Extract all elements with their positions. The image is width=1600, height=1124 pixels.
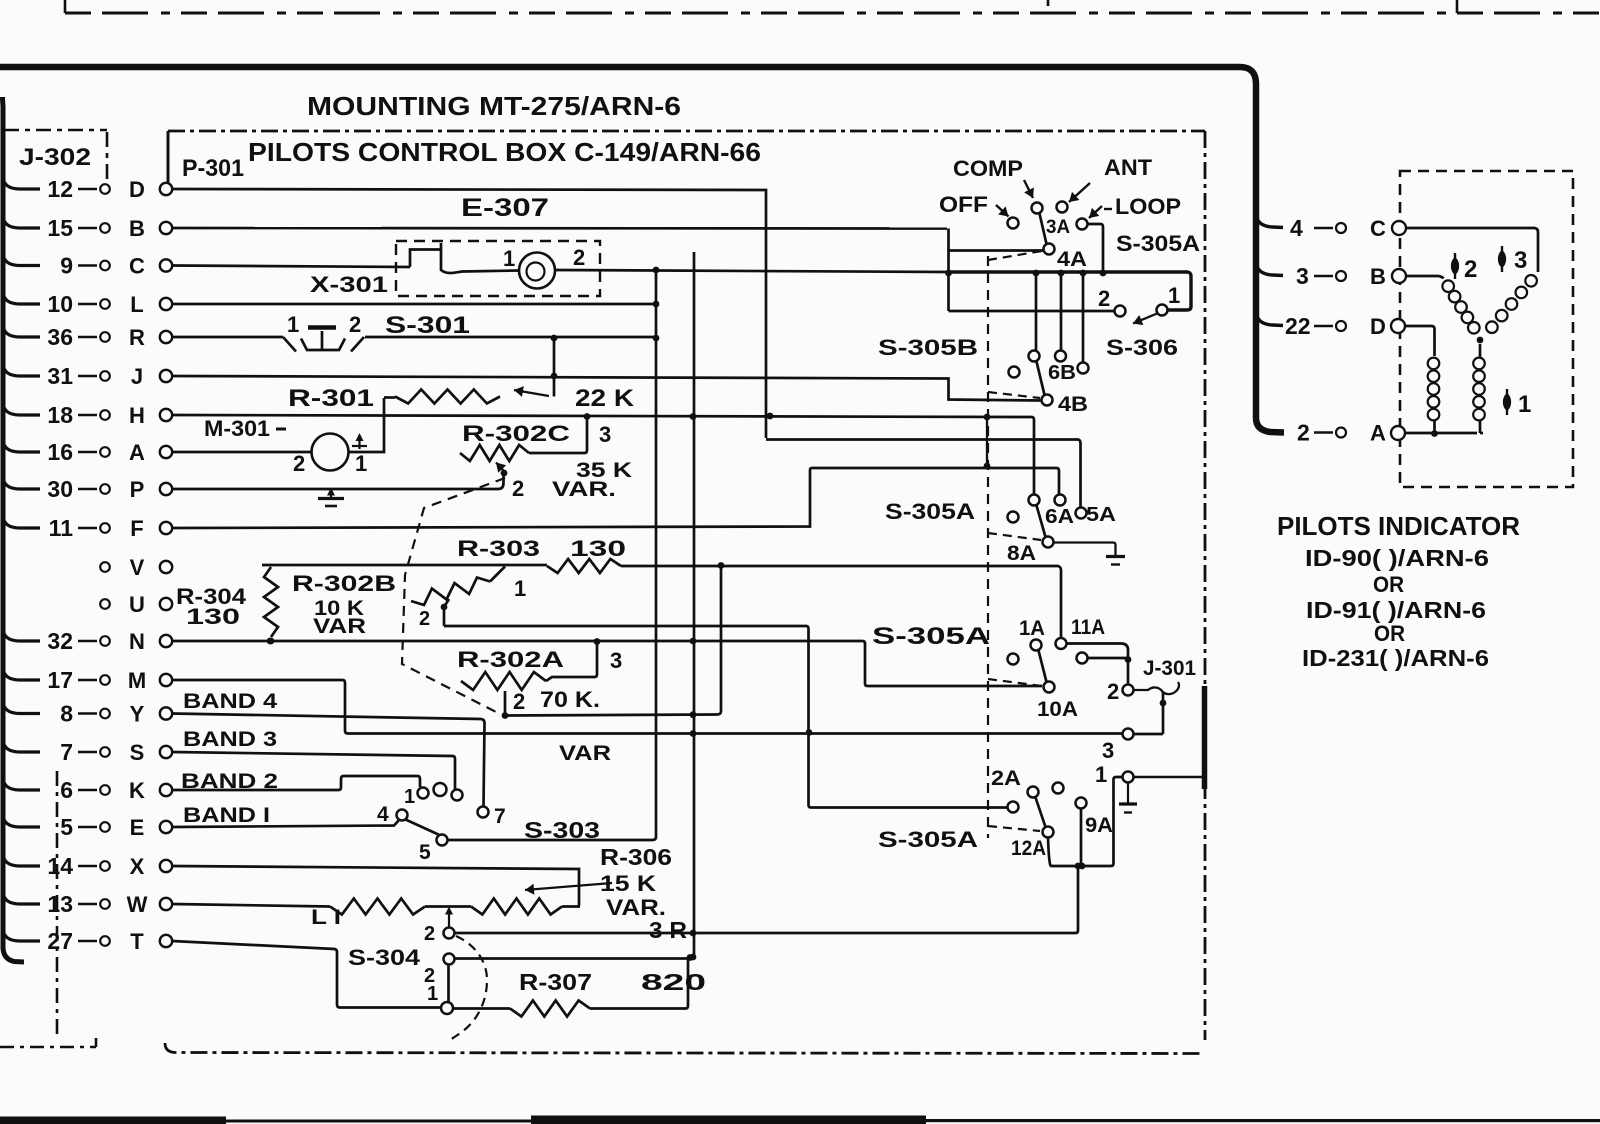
svg-text:OFF: OFF <box>939 192 988 217</box>
svg-text:ANT: ANT <box>1104 155 1153 180</box>
svg-text:1: 1 <box>503 246 515 271</box>
svg-text:S-305A: S-305A <box>878 827 978 852</box>
svg-text:X: X <box>130 854 145 879</box>
svg-text:3A: 3A <box>1046 217 1070 238</box>
svg-text:S-306: S-306 <box>1106 335 1178 360</box>
svg-text:OR: OR <box>1374 621 1405 646</box>
svg-text:22 K: 22 K <box>575 385 635 412</box>
svg-text:F: F <box>130 516 143 541</box>
svg-text:130: 130 <box>570 536 626 561</box>
svg-text:R: R <box>129 325 145 350</box>
svg-text:18: 18 <box>47 402 73 428</box>
svg-text:1: 1 <box>514 576 526 601</box>
svg-text:1: 1 <box>287 312 299 337</box>
svg-text:5: 5 <box>60 814 73 840</box>
svg-text:13: 13 <box>47 891 73 917</box>
svg-text:2: 2 <box>1464 256 1477 283</box>
svg-text:2: 2 <box>573 245 585 270</box>
svg-text:10A: 10A <box>1037 698 1078 721</box>
svg-text:COMP: COMP <box>953 156 1023 181</box>
svg-text:H: H <box>129 403 145 428</box>
svg-text:2: 2 <box>419 608 430 630</box>
svg-text:J: J <box>131 364 143 389</box>
svg-text:C: C <box>129 254 145 279</box>
svg-text:X-301: X-301 <box>310 272 388 297</box>
svg-text:ID-91( )/ARN-6: ID-91( )/ARN-6 <box>1306 597 1486 623</box>
svg-text:OR: OR <box>1373 572 1404 597</box>
svg-text:4: 4 <box>377 803 389 826</box>
svg-text:VAR: VAR <box>313 615 366 638</box>
svg-text:D: D <box>1370 314 1386 339</box>
svg-text:130: 130 <box>186 604 240 629</box>
svg-text:2A: 2A <box>991 767 1021 790</box>
svg-text:V: V <box>130 555 145 580</box>
svg-text:2: 2 <box>349 312 361 337</box>
svg-text:820: 820 <box>641 969 706 995</box>
svg-text:S-301: S-301 <box>385 312 470 339</box>
svg-text:3 R: 3 R <box>649 917 687 943</box>
svg-text:12A: 12A <box>1011 837 1046 860</box>
svg-text:P: P <box>130 477 145 502</box>
svg-text:9: 9 <box>60 253 73 279</box>
svg-text:W: W <box>127 892 148 917</box>
svg-text:J-301: J-301 <box>1143 657 1196 680</box>
svg-text:S-305B: S-305B <box>878 335 978 360</box>
svg-text:11A: 11A <box>1071 616 1105 639</box>
svg-text:1: 1 <box>1168 283 1180 308</box>
svg-text:L I: L I <box>311 906 341 929</box>
svg-text:S-303: S-303 <box>524 817 600 843</box>
svg-text:PILOTS CONTROL BOX C-149/ARN-6: PILOTS CONTROL BOX C-149/ARN-66 <box>248 137 761 167</box>
svg-text:30: 30 <box>47 476 73 502</box>
svg-text:10: 10 <box>47 291 73 317</box>
svg-text:E-307: E-307 <box>461 194 549 222</box>
svg-text:B: B <box>129 216 145 241</box>
svg-text:2: 2 <box>512 476 524 501</box>
svg-text:M-301: M-301 <box>204 416 270 441</box>
svg-text:R-303: R-303 <box>457 536 540 561</box>
svg-text:3: 3 <box>599 422 611 447</box>
svg-text:PILOTS INDICATOR: PILOTS INDICATOR <box>1277 511 1520 541</box>
svg-text:6: 6 <box>60 777 73 803</box>
svg-text:P-301: P-301 <box>182 155 244 182</box>
svg-text:2: 2 <box>1297 420 1310 446</box>
svg-text:1: 1 <box>427 983 438 1005</box>
svg-text:R-307: R-307 <box>519 969 592 995</box>
svg-text:ID-90( )/ARN-6: ID-90( )/ARN-6 <box>1305 545 1489 571</box>
svg-text:17: 17 <box>47 667 73 693</box>
svg-text:D: D <box>129 177 145 202</box>
svg-text:27: 27 <box>47 928 73 954</box>
svg-text:7: 7 <box>60 739 73 765</box>
svg-text:3: 3 <box>1102 738 1114 763</box>
svg-text:E: E <box>130 815 145 840</box>
svg-text:Y: Y <box>130 702 145 727</box>
svg-text:BAND I: BAND I <box>183 804 270 827</box>
svg-text:BAND 3: BAND 3 <box>183 728 277 751</box>
svg-text:M: M <box>128 668 146 693</box>
svg-text:14: 14 <box>47 853 73 879</box>
svg-text:R-302B: R-302B <box>292 571 396 596</box>
svg-text:S-304: S-304 <box>348 945 421 970</box>
svg-text:R-306: R-306 <box>600 844 672 870</box>
svg-text:11: 11 <box>49 515 74 541</box>
svg-text:3: 3 <box>1514 247 1527 274</box>
svg-text:1: 1 <box>355 451 367 476</box>
svg-text:5A: 5A <box>1086 504 1116 526</box>
svg-text:S-305A: S-305A <box>1116 231 1200 256</box>
svg-text:6A: 6A <box>1045 506 1074 528</box>
svg-text:2: 2 <box>424 923 435 945</box>
svg-text:12: 12 <box>47 176 73 202</box>
svg-text:L: L <box>130 292 143 317</box>
svg-text:31: 31 <box>47 363 73 389</box>
svg-text:U: U <box>129 592 145 617</box>
svg-text:3: 3 <box>1296 263 1309 289</box>
svg-text:4: 4 <box>1290 215 1303 241</box>
svg-text:N: N <box>129 629 145 654</box>
svg-text:1A: 1A <box>1019 617 1045 640</box>
svg-text:ID-231( )/ARN-6: ID-231( )/ARN-6 <box>1302 645 1489 671</box>
svg-text:S-305A: S-305A <box>872 623 990 650</box>
svg-text:15: 15 <box>47 215 73 241</box>
svg-text:9A: 9A <box>1085 814 1113 837</box>
svg-text:3: 3 <box>610 648 622 673</box>
svg-text:MOUNTING MT-275/ARN-6: MOUNTING MT-275/ARN-6 <box>307 91 681 121</box>
svg-text:2: 2 <box>1098 286 1110 311</box>
svg-text:S: S <box>130 740 145 765</box>
svg-text:VAR.: VAR. <box>552 478 616 501</box>
svg-text:1: 1 <box>404 786 415 808</box>
svg-text:BAND 4: BAND 4 <box>183 690 277 713</box>
svg-text:LOOP: LOOP <box>1115 194 1181 219</box>
svg-text:2: 2 <box>1107 679 1119 704</box>
svg-text:32: 32 <box>47 628 73 654</box>
svg-text:K: K <box>129 778 145 803</box>
svg-text:15 K: 15 K <box>600 871 656 896</box>
svg-text:R-301: R-301 <box>288 385 374 412</box>
svg-text:4B: 4B <box>1058 393 1088 416</box>
svg-text:16: 16 <box>47 439 73 465</box>
svg-text:1: 1 <box>1518 391 1531 418</box>
svg-text:8: 8 <box>60 701 73 727</box>
svg-text:2: 2 <box>513 689 525 714</box>
svg-text:8A: 8A <box>1007 542 1036 565</box>
svg-text:C: C <box>1370 216 1386 241</box>
svg-text:6B: 6B <box>1048 362 1076 384</box>
svg-text:1: 1 <box>1095 762 1107 787</box>
svg-text:A: A <box>1370 421 1386 446</box>
svg-text:22: 22 <box>1285 313 1311 339</box>
svg-text:R-302C: R-302C <box>462 421 570 446</box>
svg-text:36: 36 <box>47 324 73 350</box>
svg-text:2: 2 <box>293 451 305 476</box>
svg-text:4A: 4A <box>1057 248 1087 271</box>
svg-text:5: 5 <box>419 841 431 864</box>
svg-text:A: A <box>129 440 145 465</box>
svg-text:BAND 2: BAND 2 <box>181 770 278 793</box>
svg-text:VAR: VAR <box>559 742 611 765</box>
svg-text:70 K.: 70 K. <box>540 687 600 712</box>
svg-text:7: 7 <box>494 805 506 828</box>
svg-text:S-305A: S-305A <box>885 499 975 524</box>
svg-text:T: T <box>130 929 144 954</box>
svg-text:B: B <box>1370 264 1386 289</box>
svg-text:J-302: J-302 <box>19 144 91 171</box>
svg-text:R-302A: R-302A <box>457 647 564 672</box>
